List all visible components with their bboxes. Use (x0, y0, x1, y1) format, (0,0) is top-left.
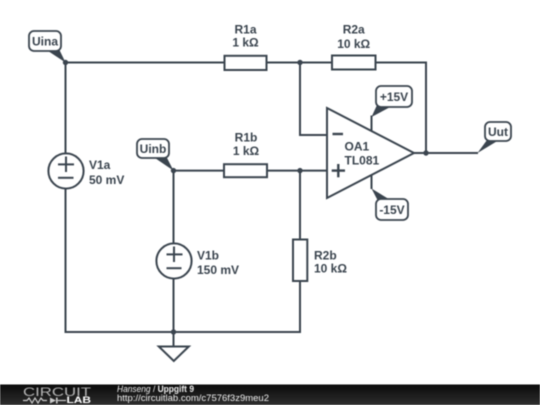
svg-text:TL081: TL081 (345, 154, 380, 168)
svg-text:OA1: OA1 (345, 140, 370, 154)
svg-text:Uut: Uut (488, 125, 508, 139)
svg-text:V1a: V1a (89, 158, 111, 172)
svg-text:-15V: -15V (379, 203, 404, 217)
svg-text:+15V: +15V (380, 90, 408, 104)
svg-text:Uinb: Uinb (140, 142, 167, 156)
svg-text:http://circuitlab.com/c7576f3z: http://circuitlab.com/c7576f3z9meu2 (117, 393, 269, 403)
svg-text:V1b: V1b (197, 249, 219, 263)
svg-text:LAB: LAB (67, 395, 92, 405)
svg-text:1 kΩ: 1 kΩ (233, 144, 260, 158)
svg-text:Uina: Uina (32, 35, 58, 49)
svg-text:150 mV: 150 mV (197, 263, 239, 277)
svg-text:R1b: R1b (235, 131, 258, 145)
svg-text:R2b: R2b (314, 249, 337, 263)
svg-text:1 kΩ: 1 kΩ (232, 36, 259, 50)
svg-text:50 mV: 50 mV (89, 173, 124, 187)
svg-text:R1a: R1a (234, 23, 256, 37)
svg-text:10 kΩ: 10 kΩ (337, 37, 370, 51)
svg-text:10 kΩ: 10 kΩ (314, 262, 347, 276)
svg-text:R2a: R2a (343, 23, 365, 37)
